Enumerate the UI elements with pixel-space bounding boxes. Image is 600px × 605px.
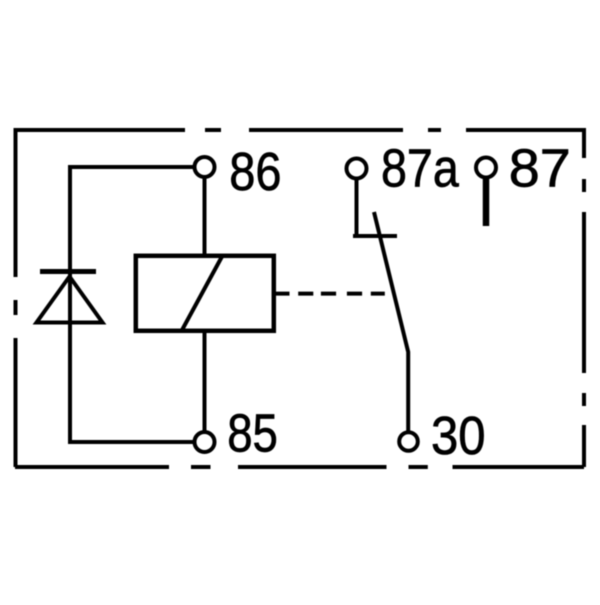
- svg-text:86: 86: [229, 142, 281, 202]
- terminal circle 87a: [347, 159, 367, 179]
- relay coil K1 diagonal: [182, 257, 223, 332]
- terminal circle 86: [195, 157, 215, 177]
- wire: terminal 86 to coil top: [203, 167, 207, 256]
- svg-text:87a: 87a: [381, 139, 460, 199]
- diode D1 cathode bar: [40, 269, 96, 274]
- terminal circle 30: [399, 432, 418, 451]
- dashed mechanical link from coil to armature: [276, 292, 390, 296]
- wire: terminal 86 left horizontal: [70, 165, 204, 169]
- svg-text:87: 87: [509, 139, 571, 199]
- relay enclosure dashed outline bottom: [15, 465, 584, 469]
- terminal circle 87: [476, 158, 496, 178]
- terminal 87 stub: [483, 168, 490, 226]
- wire: coil bottom to terminal 85: [203, 331, 207, 442]
- wire: left vertical branch through diode: [68, 165, 72, 442]
- relay enclosure dashed outline left: [14, 128, 18, 467]
- svg-text:30: 30: [431, 406, 486, 466]
- fixed contact 87a L-shape: [353, 169, 397, 237]
- diode D1 triangle (anode): [37, 277, 103, 323]
- relay coil K1 body: [136, 256, 274, 331]
- svg-text:85: 85: [227, 404, 278, 464]
- terminal circle 85: [195, 432, 215, 452]
- relay enclosure dashed outline right: [582, 128, 586, 467]
- wire: bottom horizontal to terminal 85: [68, 440, 205, 444]
- switch armature from 87a side down to terminal 30: [374, 212, 408, 442]
- relay enclosure dashed outline top: [15, 128, 584, 132]
